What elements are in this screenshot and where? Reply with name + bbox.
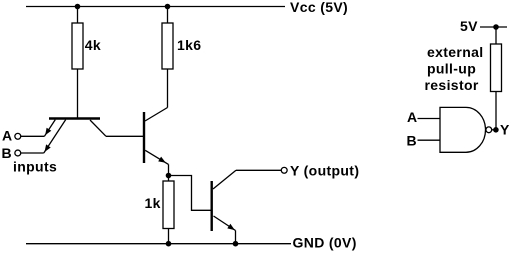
svg-text:pull-up: pull-up <box>427 61 476 77</box>
svg-text:B: B <box>407 132 417 148</box>
wire 5V stub <box>480 26 507 28</box>
resistor R4 external pull-up body <box>491 44 502 92</box>
resistor R3 1k body <box>163 181 174 229</box>
transistor Q3 collector diagonal <box>213 170 236 189</box>
wire gate input A <box>418 118 441 120</box>
junction node 1k/GND <box>166 241 172 247</box>
svg-text:GND (0V): GND (0V) <box>293 235 357 251</box>
wire GND rail <box>26 243 291 245</box>
junction node 4k/Vcc <box>75 4 81 10</box>
resistor R2 1k6 body <box>162 23 173 69</box>
wire Vcc rail <box>26 6 285 8</box>
transistor Q1 base bar <box>49 117 100 119</box>
svg-text:inputs: inputs <box>13 158 57 174</box>
wire 1k6 bottom to Q2 collector <box>167 69 169 108</box>
junction node 1k6/Vcc <box>165 4 171 10</box>
transistor Q1 collector <box>90 120 106 136</box>
svg-text:5V: 5V <box>460 18 478 34</box>
transistor Q1 emitter A with arrow <box>44 120 55 137</box>
wire node to Q3 base <box>169 176 212 211</box>
wire Q2 emitter down to node <box>168 164 170 175</box>
junction node Q3 emitter/GND <box>233 241 239 247</box>
transistor Q2 collector diagonal <box>145 108 168 122</box>
wire gate output stub <box>492 129 496 131</box>
transistor Q2 base bar <box>143 112 145 163</box>
junction node Q2 emitter / 1k / Q3 base <box>166 173 172 179</box>
svg-text:Y (output): Y (output) <box>290 163 359 179</box>
gate U1 output bubble <box>486 127 492 133</box>
terminal A <box>15 133 21 139</box>
wire Q3 collector to Y terminal <box>236 169 281 171</box>
wire input B <box>21 152 44 154</box>
transistor Q2 emitter with arrow <box>145 150 168 164</box>
svg-text:4k: 4k <box>85 37 101 53</box>
wire gate input B <box>418 139 441 141</box>
transistor Q1 emitter B with arrow <box>44 120 66 153</box>
wire 4k bottom lead to Q1 base <box>77 69 79 119</box>
transistor Q3 bar <box>210 181 212 231</box>
svg-text:B: B <box>2 145 12 161</box>
junction node 5V/pull-up <box>493 24 499 30</box>
transistor Q3 emitter with arrow <box>214 216 236 244</box>
svg-text:A: A <box>407 109 417 125</box>
wire Q1 collector to Q2 base <box>106 135 144 137</box>
svg-text:Y: Y <box>500 122 510 138</box>
svg-text:A: A <box>2 127 12 143</box>
terminal B <box>15 150 21 156</box>
svg-text:resistor: resistor <box>425 77 479 93</box>
svg-text:1k6: 1k6 <box>177 37 201 53</box>
label external pull-up resistor <box>425 44 484 93</box>
wire 1k6 top lead <box>167 7 169 24</box>
wire pull-up to Y node <box>495 92 497 130</box>
svg-text:Vcc (5V): Vcc (5V) <box>290 0 348 15</box>
gate U1 NAND body <box>440 107 486 152</box>
terminal Y output <box>281 167 287 173</box>
wire 1k bottom lead <box>168 229 170 244</box>
wire 1k top lead <box>168 176 170 182</box>
resistor R1 4k body <box>72 23 83 69</box>
svg-text:external: external <box>427 44 484 60</box>
wire 4k top lead <box>77 7 79 24</box>
wire input A <box>21 135 45 137</box>
junction node Y gate output <box>493 127 499 133</box>
wire 5V to pull-up resistor <box>495 27 497 44</box>
svg-text:1k: 1k <box>145 195 161 211</box>
